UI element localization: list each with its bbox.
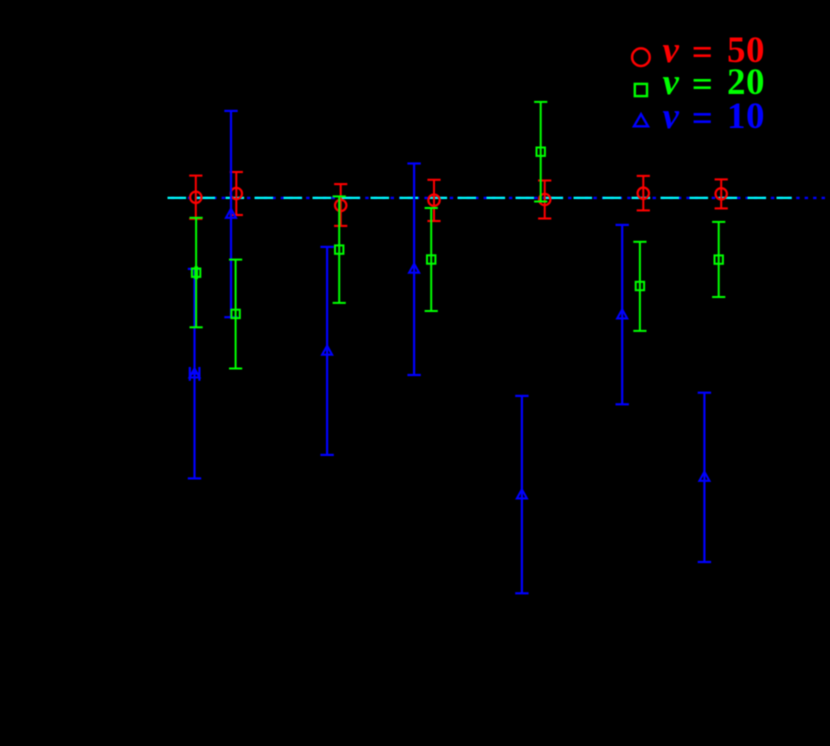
blue dotted reference line underlay bbox=[168, 197, 830, 199]
legend marker triangle nu=10 bbox=[634, 114, 648, 126]
red nu=50 error bar point 7 bbox=[715, 179, 728, 208]
red nu=50 error bar point 1 bbox=[189, 176, 202, 219]
legend marker square nu=20 bbox=[635, 84, 647, 96]
blue nu=10 error bar point 2 bbox=[224, 111, 237, 317]
green nu=20 error bar point 4 bbox=[425, 208, 438, 311]
cyan dashed reference line bbox=[168, 197, 792, 199]
red nu=50 error bar point 3 bbox=[334, 184, 347, 226]
blue nu=10 error bar point 5 bbox=[515, 396, 528, 593]
blue nu=10 error bar point 1 bbox=[188, 269, 201, 479]
green nu=20 error bar point 2 bbox=[229, 260, 242, 369]
green nu=20 error bar point 3 bbox=[333, 196, 346, 303]
red nu=50 error bar point 5 bbox=[538, 181, 551, 219]
blue nu=10 error bar point 7 bbox=[698, 393, 711, 562]
blue nu=10 error bar point 4 bbox=[407, 164, 420, 376]
blue nu=10 error bar point 6 bbox=[616, 225, 629, 404]
blue nu=10 error bar point 3 bbox=[320, 247, 333, 455]
green nu=20 error bar point 5 bbox=[534, 102, 547, 202]
red nu=50 error bar point 4 bbox=[427, 180, 440, 221]
green nu=20 error bar point 1 bbox=[190, 218, 203, 327]
green nu=20 error bar point 7 bbox=[712, 222, 725, 297]
red nu=50 error bar point 6 bbox=[637, 176, 650, 211]
green nu=20 error bar point 6 bbox=[633, 242, 646, 331]
legend marker circle nu=50 bbox=[632, 48, 650, 66]
red nu=50 error bar point 2 bbox=[230, 172, 243, 215]
